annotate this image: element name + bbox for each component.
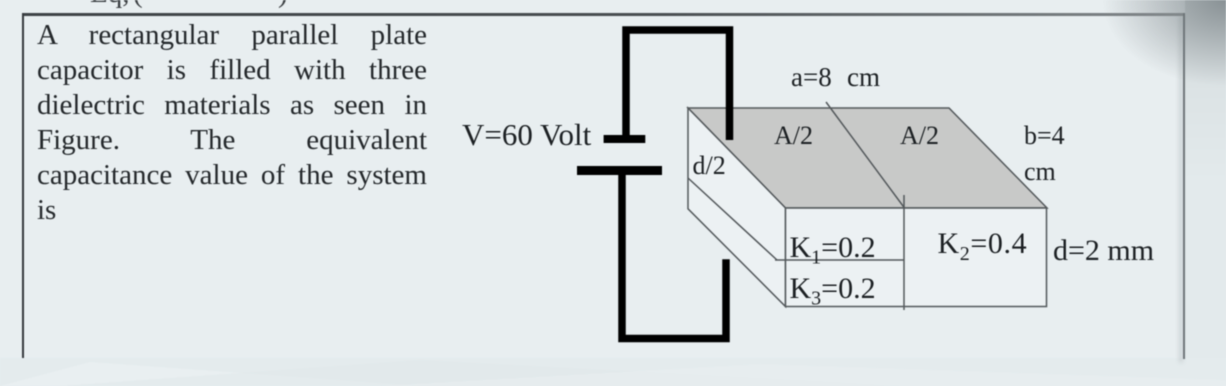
svg-text:d=2 mm: d=2 mm (1053, 234, 1154, 267)
svg-text:Eq,: Eq, (90, 0, 129, 9)
svg-text:A/2: A/2 (900, 121, 939, 150)
svg-text:K1=0.2: K1=0.2 (790, 231, 876, 269)
svg-text:d/2: d/2 (693, 151, 726, 180)
svg-text:A/2: A/2 (774, 121, 813, 150)
svg-text:K3=0.2: K3=0.2 (790, 272, 876, 310)
svg-text:b=4: b=4 (1024, 121, 1065, 150)
svg-text:): ) (278, 0, 288, 9)
svg-text:a=8: a=8 (791, 62, 832, 92)
svg-text:(: ( (133, 0, 143, 9)
svg-text:cm: cm (1024, 157, 1056, 186)
svg-text:K2=0.4: K2=0.4 (938, 227, 1028, 265)
svg-text:cm: cm (847, 62, 880, 92)
